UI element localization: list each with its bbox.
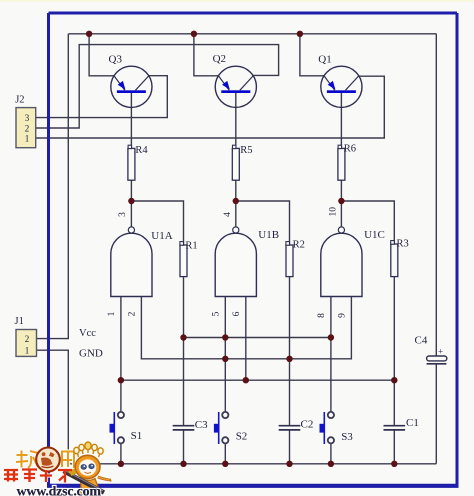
wire J2 pin1 to Q1 base <box>36 76 384 138</box>
junction R3 bottom on row C <box>391 377 397 383</box>
wire GND from J1 pin1 to bottom rail <box>37 350 69 464</box>
wire U1B pin5 leg to S2 <box>224 297 226 464</box>
wire Q3 emitter to Vcc rail <box>89 34 114 76</box>
switch S2 <box>214 412 247 444</box>
svg-text:R1: R1 <box>185 240 197 251</box>
svg-text:C3: C3 <box>195 419 208 431</box>
capacitor C1 <box>384 417 419 430</box>
junction U1B pin5 on row A <box>222 334 228 340</box>
transistor Q3 <box>109 53 153 107</box>
svg-text:GND: GND <box>79 348 103 360</box>
transistor Q2 <box>213 53 257 107</box>
svg-text:R6: R6 <box>344 144 356 155</box>
junction Q1 emitter on Vcc rail <box>297 31 303 37</box>
svg-text:2: 2 <box>25 334 30 344</box>
svg-text:R3: R3 <box>397 239 409 250</box>
op-amp U1B (NAND gate) <box>211 212 279 317</box>
svg-text:3: 3 <box>25 113 30 123</box>
connector J1 <box>15 316 37 357</box>
svg-text:R5: R5 <box>240 145 252 156</box>
capacitor C4 (electrolytic) <box>415 335 447 364</box>
wire U1C output to R3 column to C1 <box>341 201 394 464</box>
svg-text:Q1: Q1 <box>318 53 331 65</box>
junction U1C pin8 on row A <box>328 334 334 340</box>
resistor R5 <box>232 145 252 180</box>
junction U1A output node <box>128 198 134 204</box>
svg-text:1: 1 <box>107 311 117 316</box>
junction R2 bottom on row B <box>286 356 292 362</box>
resistor R6 <box>338 144 356 181</box>
svg-text:U1A: U1A <box>151 230 172 242</box>
svg-text:R2: R2 <box>293 240 305 251</box>
svg-text:U1C: U1C <box>364 229 385 241</box>
junction C3 on ground rail <box>180 461 186 467</box>
wire U1B output to R2 column to C2 <box>236 201 290 464</box>
junction S1 on ground rail <box>118 461 124 467</box>
wire C4 branch from Vcc rail and to bottom rail <box>435 34 437 464</box>
junction R1 bottom on row A <box>180 334 186 340</box>
wire Vcc vertical from J1 pin2 <box>37 34 69 339</box>
wire Q1 emitter to Vcc rail <box>300 34 324 76</box>
svg-text:Q3: Q3 <box>109 53 123 65</box>
svg-text:1: 1 <box>25 346 30 356</box>
switch S1 <box>110 412 143 444</box>
wire Vcc rail (top) <box>68 33 436 35</box>
wire Q1 base lead through R6 to U1C output <box>340 93 342 227</box>
svg-text:6: 6 <box>232 311 242 316</box>
svg-text:8: 8 <box>317 313 327 318</box>
svg-text:S1: S1 <box>131 430 143 442</box>
svg-text:2: 2 <box>25 123 30 133</box>
svg-text:C4: C4 <box>415 335 428 347</box>
svg-text:10: 10 <box>328 207 338 217</box>
svg-text:J2: J2 <box>15 94 24 105</box>
svg-text:J1: J1 <box>15 316 24 327</box>
resistor R1 <box>180 240 198 276</box>
wire row B: U1A pin2 to R2 bottom to U1C pin9 <box>141 297 351 359</box>
wire U1C pin8 leg to S3 <box>330 297 332 464</box>
svg-text:2: 2 <box>127 311 137 316</box>
wire Q3 base lead through R4 to U1A output <box>130 93 132 227</box>
resistor R4 <box>128 145 149 180</box>
resistor R2 <box>286 240 305 277</box>
junction U1B output node <box>233 198 239 204</box>
svg-text:www.dzsc.com: www.dzsc.com <box>17 484 102 496</box>
wire GND bottom rail <box>68 463 436 465</box>
op-amp U1A (NAND gate) <box>107 212 173 317</box>
op-amp U1C (NAND gate) <box>317 207 385 318</box>
wire row A: R1 bottom to U1B pin5 to U1C pin8 <box>184 337 331 339</box>
svg-text:C2: C2 <box>301 418 314 430</box>
wire U1A pin1 leg to S1 <box>120 297 122 464</box>
wire J2 pin2 to rail2 to Q2 base <box>36 45 279 128</box>
junction S3 on ground rail <box>328 461 334 467</box>
transistor Q1 <box>318 53 362 107</box>
junction C1 on ground rail <box>391 461 397 467</box>
svg-text:Q2: Q2 <box>213 53 226 65</box>
svg-text:3: 3 <box>118 212 128 217</box>
junction Q2 emitter on Vcc rail <box>191 31 197 37</box>
wire J2 pin3 to Q3 base <box>36 76 167 118</box>
wire U1A output to R1 column to C3 <box>131 201 183 464</box>
svg-text:C1: C1 <box>406 417 419 429</box>
svg-text:5: 5 <box>211 311 221 316</box>
junction U1A pin1 on row C <box>118 377 124 383</box>
wire row C: U1A pin1 to U1B pin6 to R3 bottom <box>121 379 394 381</box>
junction U1B pin5 on row B <box>222 356 228 362</box>
junction S2 on ground rail <box>222 461 228 467</box>
svg-text:R4: R4 <box>135 145 148 156</box>
connector J2 <box>15 94 36 147</box>
wire U1B pin6 leg <box>245 297 247 381</box>
junction U1B pin6 on row C <box>243 377 249 383</box>
junction Q3 emitter on Vcc rail <box>86 31 92 37</box>
svg-text:S2: S2 <box>236 430 248 442</box>
junction C2 on ground rail <box>286 461 292 467</box>
svg-text:Vcc: Vcc <box>79 328 96 339</box>
svg-text:4: 4 <box>223 212 233 217</box>
svg-text:1: 1 <box>25 133 30 143</box>
wire Q2 base lead through R5 to U1B output <box>235 93 237 227</box>
svg-text:S3: S3 <box>341 431 353 443</box>
wire Q2 emitter to Vcc rail <box>194 34 219 76</box>
svg-text:9: 9 <box>337 313 347 318</box>
capacitor C3 <box>173 419 208 431</box>
resistor R3 <box>391 239 409 277</box>
svg-text:U1B: U1B <box>258 229 279 241</box>
switch S3 <box>320 412 354 444</box>
junction U1C output node <box>338 198 344 204</box>
capacitor C2 <box>279 418 314 430</box>
svg-text:+: + <box>438 347 443 357</box>
